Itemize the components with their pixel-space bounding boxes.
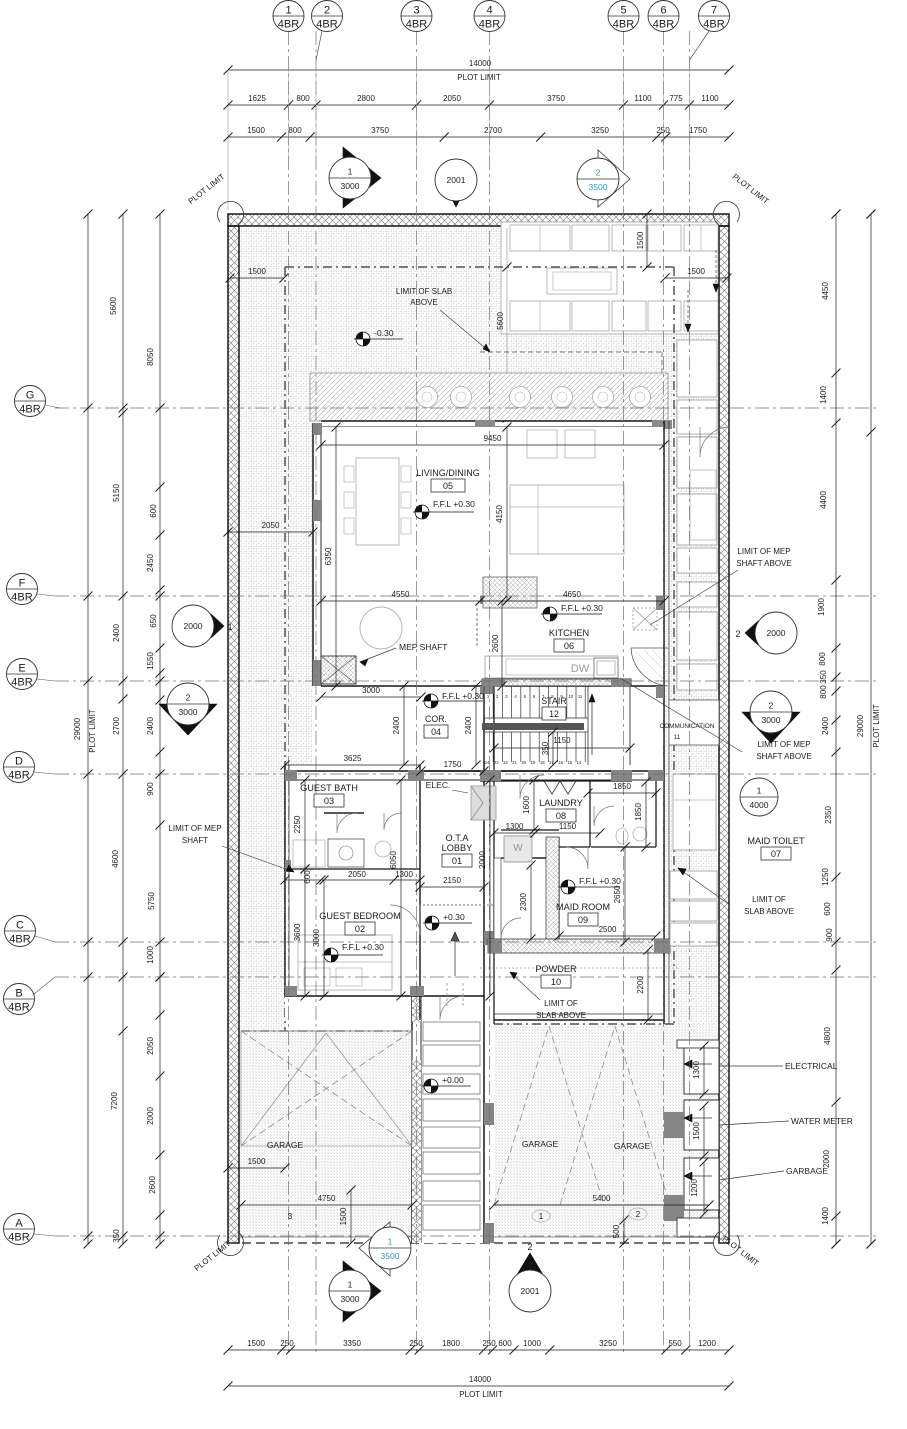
svg-text:2400: 2400 xyxy=(112,624,121,642)
svg-text:MAID TOILET: MAID TOILET xyxy=(747,836,805,846)
svg-text:6050: 6050 xyxy=(389,851,398,869)
svg-text:1600: 1600 xyxy=(522,796,531,814)
svg-text:3500: 3500 xyxy=(381,1251,400,1261)
svg-text:GARBAGE: GARBAGE xyxy=(786,1166,828,1176)
svg-text:01: 01 xyxy=(452,856,462,866)
svg-text:5600: 5600 xyxy=(109,297,118,315)
svg-text:W: W xyxy=(513,843,523,854)
svg-text:WATER METER: WATER METER xyxy=(791,1116,853,1126)
svg-text:2050: 2050 xyxy=(146,1037,155,1055)
svg-text:3000: 3000 xyxy=(362,686,380,695)
svg-text:A: A xyxy=(15,1218,23,1230)
svg-text:15: 15 xyxy=(567,760,572,765)
svg-text:1750: 1750 xyxy=(444,760,462,769)
svg-text:4450: 4450 xyxy=(821,282,830,300)
svg-text:COMMUNICATION: COMMUNICATION xyxy=(660,723,715,730)
svg-text:F.F.L +0.30: F.F.L +0.30 xyxy=(561,603,603,613)
svg-text:G: G xyxy=(26,390,35,402)
svg-text:2: 2 xyxy=(596,168,601,178)
svg-text:4BR: 4BR xyxy=(316,19,337,31)
svg-text:SHAFT ABOVE: SHAFT ABOVE xyxy=(736,559,791,568)
svg-text:POWDER: POWDER xyxy=(535,964,577,974)
svg-text:1: 1 xyxy=(285,5,291,17)
svg-text:1: 1 xyxy=(348,167,353,177)
svg-text:5: 5 xyxy=(620,5,626,17)
svg-text:LIMIT OF SLAB: LIMIT OF SLAB xyxy=(396,287,452,296)
svg-text:03: 03 xyxy=(324,796,334,806)
svg-text:1200: 1200 xyxy=(690,1179,699,1197)
svg-text:1: 1 xyxy=(348,1280,353,1290)
svg-text:1500: 1500 xyxy=(692,1122,701,1140)
svg-text:800: 800 xyxy=(288,126,302,135)
svg-text:1500: 1500 xyxy=(248,1157,266,1166)
svg-text:2450: 2450 xyxy=(146,554,155,572)
svg-text:1500: 1500 xyxy=(247,1339,265,1348)
svg-text:4BR: 4BR xyxy=(613,19,634,31)
svg-text:1900: 1900 xyxy=(817,598,826,616)
svg-text:2000: 2000 xyxy=(478,851,487,869)
svg-text:1150: 1150 xyxy=(559,822,577,831)
svg-text:1100: 1100 xyxy=(634,94,652,103)
svg-text:4BR: 4BR xyxy=(406,19,427,31)
svg-text:1400: 1400 xyxy=(819,386,828,404)
svg-text:3000: 3000 xyxy=(179,707,198,717)
svg-text:GARAGE: GARAGE xyxy=(522,1139,559,1149)
svg-text:02: 02 xyxy=(355,924,365,934)
svg-text:4000: 4000 xyxy=(750,800,769,810)
svg-text:+0.30: +0.30 xyxy=(443,912,465,922)
svg-text:6: 6 xyxy=(660,5,666,17)
svg-text:2: 2 xyxy=(735,629,740,639)
svg-text:4550: 4550 xyxy=(392,590,410,599)
svg-text:600: 600 xyxy=(823,902,832,916)
svg-text:2000: 2000 xyxy=(767,628,786,638)
svg-text:4BR: 4BR xyxy=(479,19,500,31)
svg-text:10: 10 xyxy=(568,694,573,699)
svg-text:PLOT LIMIT: PLOT LIMIT xyxy=(457,73,501,82)
svg-text:PLOT LIMIT: PLOT LIMIT xyxy=(459,1390,503,1399)
svg-text:4BR: 4BR xyxy=(8,1002,29,1014)
svg-text:1500: 1500 xyxy=(339,1207,348,1225)
svg-text:29000: 29000 xyxy=(73,717,82,740)
svg-text:4BR: 4BR xyxy=(8,1232,29,1244)
svg-text:2200: 2200 xyxy=(636,976,645,994)
svg-text:PLOT LIMIT: PLOT LIMIT xyxy=(88,709,97,753)
svg-text:2001: 2001 xyxy=(447,175,466,185)
svg-text:5750: 5750 xyxy=(147,892,156,910)
svg-text:GUEST BATH: GUEST BATH xyxy=(300,783,358,793)
svg-text:-0.30: -0.30 xyxy=(374,328,394,338)
svg-text:B: B xyxy=(15,988,22,1000)
svg-text:LIMIT OF MEP: LIMIT OF MEP xyxy=(757,740,810,749)
svg-text:800: 800 xyxy=(296,94,310,103)
svg-text:4: 4 xyxy=(486,5,492,17)
svg-text:4750: 4750 xyxy=(318,1194,336,1203)
svg-text:2650: 2650 xyxy=(613,885,622,903)
svg-text:3600: 3600 xyxy=(293,923,302,941)
svg-text:1000: 1000 xyxy=(146,946,155,964)
svg-text:3000: 3000 xyxy=(341,1294,360,1304)
svg-text:STAIR: STAIR xyxy=(541,696,566,706)
svg-text:1500: 1500 xyxy=(687,267,705,276)
svg-text:GUEST BEDROOM: GUEST BEDROOM xyxy=(319,911,401,921)
svg-text:1850: 1850 xyxy=(634,803,643,821)
svg-text:1750: 1750 xyxy=(689,126,707,135)
svg-text:2: 2 xyxy=(324,5,330,17)
svg-text:800: 800 xyxy=(819,685,828,699)
svg-text:2050: 2050 xyxy=(443,94,461,103)
svg-text:1500: 1500 xyxy=(247,126,265,135)
svg-text:F: F xyxy=(19,578,26,590)
svg-text:O.T.A: O.T.A xyxy=(446,833,470,843)
svg-text:F.F.L +0.30: F.F.L +0.30 xyxy=(342,942,384,952)
svg-text:1500: 1500 xyxy=(248,267,266,276)
svg-text:7: 7 xyxy=(711,5,717,17)
svg-text:3350: 3350 xyxy=(343,1339,361,1348)
svg-text:250: 250 xyxy=(482,1339,496,1348)
svg-text:08: 08 xyxy=(556,811,566,821)
svg-text:1: 1 xyxy=(227,622,232,632)
svg-text:5600: 5600 xyxy=(496,312,505,330)
svg-text:LIMIT OF MEP: LIMIT OF MEP xyxy=(737,547,790,556)
svg-text:1150: 1150 xyxy=(553,736,571,745)
svg-text:1800: 1800 xyxy=(442,1339,460,1348)
svg-text:4BR: 4BR xyxy=(8,770,29,782)
svg-text:3000: 3000 xyxy=(762,715,781,725)
svg-text:250: 250 xyxy=(280,1339,294,1348)
svg-text:2400: 2400 xyxy=(464,716,473,734)
svg-text:7200: 7200 xyxy=(110,1092,119,1110)
svg-text:3000: 3000 xyxy=(312,929,321,947)
svg-text:D: D xyxy=(15,756,23,768)
svg-text:2400: 2400 xyxy=(392,716,401,734)
svg-text:2400: 2400 xyxy=(821,717,830,735)
svg-text:SHAFT ABOVE: SHAFT ABOVE xyxy=(756,752,811,761)
svg-text:350: 350 xyxy=(541,741,550,755)
svg-text:C: C xyxy=(16,920,24,932)
svg-text:5400: 5400 xyxy=(593,1194,611,1203)
svg-text:1: 1 xyxy=(539,1212,544,1221)
svg-text:350: 350 xyxy=(112,1229,121,1243)
svg-text:23: 23 xyxy=(494,760,499,765)
svg-text:2350: 2350 xyxy=(824,806,833,824)
svg-text:14: 14 xyxy=(577,760,582,765)
svg-text:2800: 2800 xyxy=(357,94,375,103)
svg-text:2000: 2000 xyxy=(184,621,203,631)
svg-text:1: 1 xyxy=(757,786,762,796)
svg-text:3750: 3750 xyxy=(547,94,565,103)
svg-text:2000: 2000 xyxy=(146,1107,155,1125)
svg-text:16: 16 xyxy=(558,760,563,765)
svg-text:2300: 2300 xyxy=(519,893,528,911)
svg-text:29000: 29000 xyxy=(856,714,865,737)
svg-text:650: 650 xyxy=(149,614,158,628)
svg-text:9450: 9450 xyxy=(484,434,502,443)
svg-text:2600: 2600 xyxy=(148,1176,157,1194)
svg-text:4BR: 4BR xyxy=(19,404,40,416)
svg-text:1100: 1100 xyxy=(701,94,719,103)
svg-text:05: 05 xyxy=(443,481,453,491)
svg-text:MAID ROOM: MAID ROOM xyxy=(556,902,610,912)
svg-text:3: 3 xyxy=(288,1212,293,1221)
svg-text:1250: 1250 xyxy=(821,868,830,886)
svg-text:LIMIT OF MEP: LIMIT OF MEP xyxy=(168,824,221,833)
svg-text:4BR: 4BR xyxy=(11,677,32,689)
svg-text:4400: 4400 xyxy=(819,491,828,509)
svg-text:500: 500 xyxy=(612,1224,621,1238)
svg-text:1: 1 xyxy=(388,1237,393,1247)
svg-text:4BR: 4BR xyxy=(11,592,32,604)
svg-text:LAUNDRY: LAUNDRY xyxy=(539,798,583,808)
svg-text:12: 12 xyxy=(549,709,559,719)
svg-text:4BR: 4BR xyxy=(703,19,724,31)
svg-text:22: 22 xyxy=(503,760,508,765)
svg-text:1550: 1550 xyxy=(146,652,155,670)
svg-text:07: 07 xyxy=(771,849,781,859)
svg-text:1200: 1200 xyxy=(698,1339,716,1348)
svg-text:2001: 2001 xyxy=(521,1286,540,1296)
svg-text:3000: 3000 xyxy=(341,181,360,191)
svg-text:3250: 3250 xyxy=(591,126,609,135)
svg-text:F.F.L +0.30: F.F.L +0.30 xyxy=(433,499,475,509)
svg-text:2700: 2700 xyxy=(112,717,121,735)
svg-text:4800: 4800 xyxy=(823,1027,832,1045)
svg-text:09: 09 xyxy=(578,915,588,925)
svg-text:2050: 2050 xyxy=(262,521,280,530)
svg-text:18: 18 xyxy=(540,760,545,765)
svg-text:775: 775 xyxy=(669,94,683,103)
svg-text:1300: 1300 xyxy=(395,870,413,879)
svg-text:1300: 1300 xyxy=(506,822,524,831)
svg-text:19: 19 xyxy=(531,760,536,765)
svg-text:2250: 2250 xyxy=(293,815,302,833)
svg-text:F.F.L +0.30: F.F.L +0.30 xyxy=(579,876,621,886)
svg-text:DW: DW xyxy=(571,663,590,675)
svg-text:1000: 1000 xyxy=(523,1339,541,1348)
svg-text:5150: 5150 xyxy=(112,484,121,502)
svg-text:900: 900 xyxy=(146,782,155,796)
svg-text:3500: 3500 xyxy=(589,182,608,192)
svg-text:4150: 4150 xyxy=(495,505,504,523)
svg-text:350: 350 xyxy=(819,670,828,684)
svg-text:2: 2 xyxy=(636,1210,641,1219)
svg-text:SLAB ABOVE: SLAB ABOVE xyxy=(536,1011,586,1020)
svg-text:F.F.L +0.30: F.F.L +0.30 xyxy=(442,691,484,701)
svg-text:1850: 1850 xyxy=(613,782,631,791)
svg-text:LOBBY: LOBBY xyxy=(442,843,473,853)
svg-text:800: 800 xyxy=(818,652,827,666)
svg-text:3250: 3250 xyxy=(599,1339,617,1348)
svg-text:3: 3 xyxy=(413,5,419,17)
svg-text:250: 250 xyxy=(409,1339,423,1348)
svg-text:PLOT LIMIT: PLOT LIMIT xyxy=(872,704,881,748)
svg-text:600: 600 xyxy=(149,504,158,518)
svg-text:14000: 14000 xyxy=(469,1375,492,1384)
svg-text:ELECTRICAL: ELECTRICAL xyxy=(785,1061,838,1071)
svg-text:4BR: 4BR xyxy=(9,934,30,946)
svg-text:LIMIT OF: LIMIT OF xyxy=(544,999,578,1008)
svg-text:LIVING/DINING: LIVING/DINING xyxy=(416,468,480,478)
svg-text:ABOVE: ABOVE xyxy=(410,298,438,307)
svg-text:4600: 4600 xyxy=(111,850,120,868)
svg-text:6350: 6350 xyxy=(324,547,333,565)
svg-text:10: 10 xyxy=(551,977,561,987)
svg-text:550: 550 xyxy=(668,1339,682,1348)
svg-text:1400: 1400 xyxy=(821,1207,830,1225)
svg-text:2600: 2600 xyxy=(491,634,500,652)
svg-text:1300: 1300 xyxy=(692,1061,701,1079)
svg-text:3625: 3625 xyxy=(344,754,362,763)
svg-text:KITCHEN: KITCHEN xyxy=(549,628,589,638)
svg-text:4BR: 4BR xyxy=(653,19,674,31)
svg-text:E: E xyxy=(18,663,25,675)
svg-text:11: 11 xyxy=(674,734,681,741)
svg-text:8050: 8050 xyxy=(146,348,155,366)
svg-text:4650: 4650 xyxy=(563,590,581,599)
svg-text:900: 900 xyxy=(825,928,834,942)
svg-text:06: 06 xyxy=(564,641,574,651)
svg-text:1500: 1500 xyxy=(636,231,645,249)
svg-text:4BR: 4BR xyxy=(278,19,299,31)
svg-text:2: 2 xyxy=(186,693,191,703)
svg-text:GARAGE: GARAGE xyxy=(267,1140,304,1150)
svg-text:SLAB ABOVE: SLAB ABOVE xyxy=(744,907,794,916)
svg-text:+0.00: +0.00 xyxy=(442,1075,464,1085)
svg-text:2: 2 xyxy=(769,701,774,711)
svg-text:MEP SHAFT: MEP SHAFT xyxy=(399,642,448,652)
svg-text:COR.: COR. xyxy=(425,714,447,724)
svg-text:ELEC.: ELEC. xyxy=(426,780,451,790)
svg-text:600: 600 xyxy=(303,870,312,884)
svg-text:04: 04 xyxy=(431,727,441,737)
svg-text:LIMIT OF: LIMIT OF xyxy=(752,895,786,904)
svg-text:2150: 2150 xyxy=(443,876,461,885)
svg-text:2050: 2050 xyxy=(348,870,366,879)
svg-text:2: 2 xyxy=(527,1242,532,1252)
svg-text:GARAGE: GARAGE xyxy=(614,1141,651,1151)
svg-text:21: 21 xyxy=(512,760,517,765)
svg-text:11: 11 xyxy=(578,694,583,699)
svg-text:14000: 14000 xyxy=(469,59,492,68)
svg-text:2700: 2700 xyxy=(484,126,502,135)
svg-text:3750: 3750 xyxy=(371,126,389,135)
svg-text:20: 20 xyxy=(521,760,526,765)
svg-text:SHAFT: SHAFT xyxy=(182,836,208,845)
svg-text:1625: 1625 xyxy=(248,94,266,103)
svg-text:600: 600 xyxy=(498,1339,512,1348)
svg-text:2400: 2400 xyxy=(146,717,155,735)
svg-text:2500: 2500 xyxy=(599,925,617,934)
